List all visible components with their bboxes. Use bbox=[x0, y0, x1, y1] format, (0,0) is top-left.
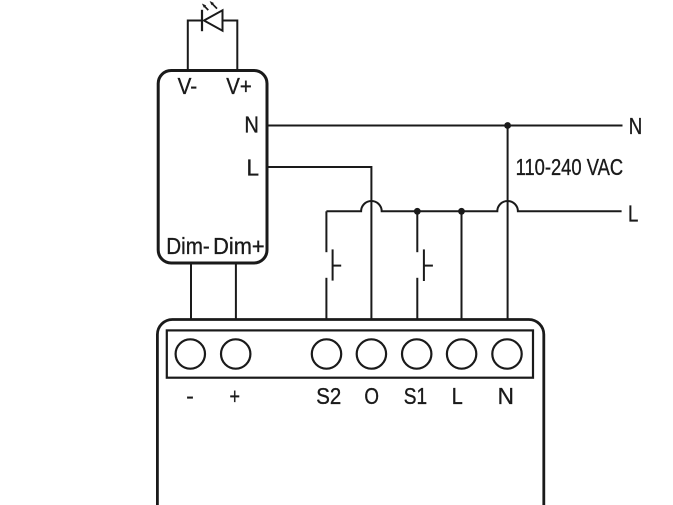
wire Dim- bbox=[190, 263, 192, 320]
svg-text:V-: V- bbox=[178, 73, 198, 99]
svg-text:S1: S1 bbox=[404, 383, 427, 409]
terminal circle O bbox=[357, 339, 386, 368]
wire L output from box to O terminal bbox=[267, 167, 371, 320]
svg-text:V+: V+ bbox=[226, 73, 252, 99]
terminal strip bbox=[167, 330, 533, 377]
svg-text:L: L bbox=[628, 200, 638, 226]
wire S1 lower segment bbox=[416, 278, 418, 320]
wire L terminal vertical bbox=[461, 211, 463, 319]
svg-text:N: N bbox=[498, 383, 514, 409]
svg-text:L: L bbox=[452, 383, 463, 409]
terminal circle S1 bbox=[402, 339, 431, 368]
svg-text:+: + bbox=[229, 383, 240, 409]
terminal circle + bbox=[221, 339, 250, 368]
svg-text:-: - bbox=[186, 383, 194, 409]
switch SW1 (push button) bbox=[423, 249, 425, 281]
terminal circle - bbox=[176, 339, 205, 368]
wire N from box to right bbox=[267, 125, 623, 127]
svg-text:N: N bbox=[629, 113, 643, 139]
terminal circle S2 bbox=[312, 339, 341, 368]
wire S1 upper segment bbox=[416, 211, 418, 252]
wire Dim+ bbox=[235, 263, 237, 320]
device body (dimmer module) bbox=[157, 320, 543, 505]
junction dot on L bus (S1) bbox=[414, 208, 421, 215]
switch SW2 (push button) bbox=[332, 249, 334, 280]
junction dot on N wire bbox=[504, 122, 511, 129]
svg-text:Dim+: Dim+ bbox=[213, 233, 265, 259]
LED D1 triangle bbox=[204, 10, 223, 30]
svg-text:N: N bbox=[244, 111, 259, 137]
terminal circle N bbox=[492, 339, 521, 368]
LED D1 emission arrow 2 bbox=[211, 3, 217, 9]
wire L bus horizontal with hops bbox=[326, 201, 621, 211]
junction dot on L bus (L terminal) bbox=[458, 208, 465, 215]
LED D1 cathode bar bbox=[201, 10, 203, 31]
wire S2 upper segment bbox=[325, 211, 327, 252]
svg-text:L: L bbox=[247, 154, 260, 180]
terminal circle L bbox=[447, 339, 476, 368]
svg-text:S2: S2 bbox=[316, 383, 341, 409]
wire N vertical down to terminal N bbox=[507, 126, 509, 320]
wire S2 lower segment bbox=[325, 278, 327, 320]
wire LED right vertical (V+ to LED) bbox=[223, 21, 238, 72]
svg-text:110-240 VAC: 110-240 VAC bbox=[516, 154, 624, 180]
wire LED left vertical (V- to LED) bbox=[188, 21, 202, 72]
LED driver box U1 bbox=[158, 71, 267, 264]
svg-text:Dim-: Dim- bbox=[166, 233, 210, 259]
LED D1 emission arrow 1 bbox=[204, 5, 209, 10]
svg-text:O: O bbox=[364, 383, 379, 409]
